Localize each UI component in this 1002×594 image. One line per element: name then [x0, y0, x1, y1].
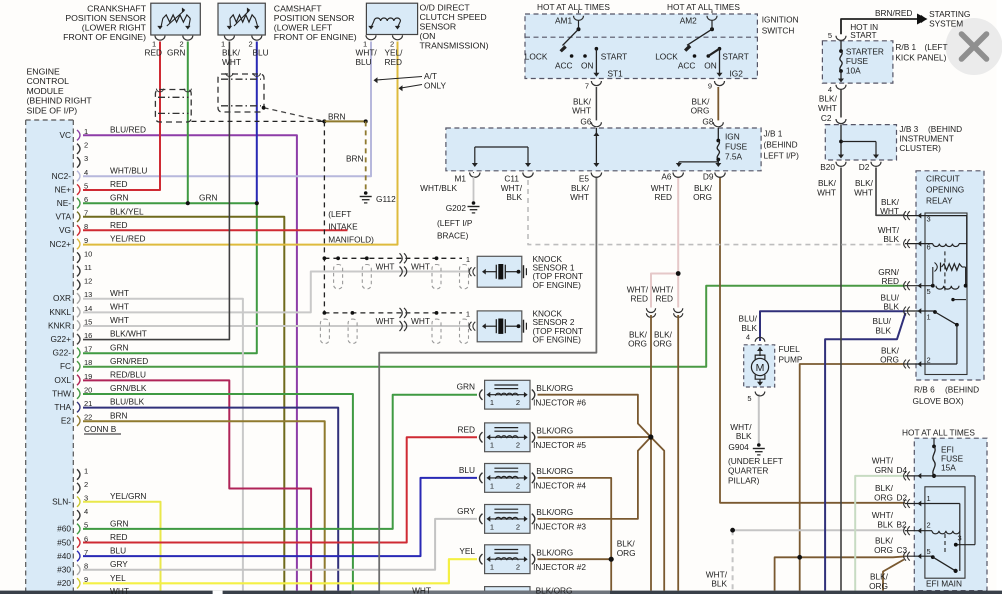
svg-text:GRN: GRN [199, 192, 217, 202]
svg-text:(LEFT: (LEFT [925, 42, 948, 52]
svg-text:SLN-: SLN- [52, 497, 71, 507]
svg-text:5: 5 [747, 394, 751, 403]
svg-text:OF ENGINE): OF ENGINE) [533, 280, 582, 290]
svg-text:G22-: G22- [53, 348, 72, 358]
svg-text:5: 5 [828, 31, 832, 40]
svg-text:G904: G904 [728, 442, 749, 452]
svg-text:ORG: ORG [693, 192, 712, 202]
svg-text:6: 6 [84, 534, 88, 543]
svg-text:1: 1 [466, 255, 470, 264]
svg-text:7: 7 [84, 209, 88, 218]
svg-text:D9: D9 [703, 172, 714, 182]
svg-text:WHT: WHT [411, 316, 430, 326]
svg-text:BLK: BLK [736, 431, 752, 441]
svg-text:(BEHIND: (BEHIND [928, 124, 962, 134]
svg-text:GRN: GRN [167, 48, 185, 58]
svg-text:BRN: BRN [110, 410, 128, 420]
svg-text:19: 19 [84, 372, 92, 381]
svg-text:VTA: VTA [55, 212, 71, 222]
svg-text:ORG: ORG [628, 339, 647, 349]
svg-text:LOCK: LOCK [655, 51, 678, 61]
svg-text:YEL/RED: YEL/RED [110, 234, 146, 244]
svg-text:D2: D2 [897, 493, 908, 503]
svg-text:GRN/RED: GRN/RED [110, 356, 148, 366]
svg-text:CONTROL: CONTROL [27, 76, 70, 86]
svg-text:1: 1 [490, 441, 494, 450]
svg-text:BLU/RED: BLU/RED [110, 125, 146, 135]
svg-text:HOT AT ALL TIMES: HOT AT ALL TIMES [667, 2, 740, 12]
svg-text:IGN: IGN [725, 132, 740, 142]
svg-text:FRONT OF ENGINE): FRONT OF ENGINE) [274, 32, 357, 42]
svg-text:2: 2 [84, 141, 88, 150]
svg-text:POSITION SENSOR: POSITION SENSOR [65, 13, 146, 23]
svg-text:C3: C3 [897, 545, 908, 555]
svg-text:FC: FC [60, 361, 71, 371]
svg-text:BLU/: BLU/ [739, 314, 758, 324]
svg-text:C2: C2 [821, 113, 832, 123]
svg-text:STARTING: STARTING [929, 9, 970, 19]
svg-text:5: 5 [927, 287, 931, 296]
svg-text:RED: RED [110, 220, 128, 230]
svg-text:(BEHIND: (BEHIND [945, 385, 979, 395]
svg-text:ACC: ACC [678, 61, 696, 71]
svg-text:WHT/BLU: WHT/BLU [110, 166, 147, 176]
svg-text:J/B 3: J/B 3 [899, 124, 918, 134]
svg-text:ON: ON [704, 61, 716, 71]
svg-text:7: 7 [84, 548, 88, 557]
svg-text:NC2+: NC2+ [50, 239, 72, 249]
svg-text:9: 9 [84, 575, 88, 584]
svg-text:RED: RED [654, 192, 672, 202]
svg-text:C11: C11 [504, 174, 519, 184]
svg-text:INJECTOR #2: INJECTOR #2 [533, 562, 586, 572]
svg-text:ACC: ACC [555, 61, 573, 71]
svg-text:(LEFT I/P: (LEFT I/P [437, 218, 473, 228]
svg-text:QUARTER: QUARTER [728, 466, 768, 476]
svg-text:ORG: ORG [874, 493, 893, 503]
svg-text:4: 4 [84, 507, 88, 516]
svg-text:WHT: WHT [110, 288, 129, 298]
svg-text:THW: THW [52, 388, 71, 398]
svg-text:YEL: YEL [459, 546, 475, 556]
svg-text:BLK/: BLK/ [875, 536, 894, 546]
svg-text:GRN: GRN [875, 465, 893, 475]
svg-text:#20: #20 [57, 578, 71, 588]
svg-text:(LOWER LEFT: (LOWER LEFT [274, 23, 333, 33]
svg-text:START: START [601, 51, 627, 61]
svg-text:RED: RED [630, 294, 648, 304]
svg-text:CLUSTER): CLUSTER) [899, 143, 941, 153]
svg-text:#50: #50 [57, 537, 71, 547]
svg-text:(UNDER LEFT: (UNDER LEFT [728, 456, 783, 466]
svg-text:1: 1 [490, 398, 494, 407]
svg-text:5: 5 [84, 521, 88, 530]
svg-text:WHT: WHT [818, 103, 837, 113]
svg-text:1: 1 [466, 310, 470, 319]
svg-text:18: 18 [84, 358, 92, 367]
svg-text:WHT: WHT [411, 261, 430, 271]
svg-text:IGNITION: IGNITION [762, 15, 799, 25]
svg-text:D4: D4 [897, 465, 908, 475]
svg-text:LOCK: LOCK [525, 51, 548, 61]
svg-text:GLOVE BOX): GLOVE BOX) [913, 396, 964, 406]
svg-text:A6: A6 [661, 172, 672, 182]
svg-text:SWITCH: SWITCH [762, 26, 795, 36]
svg-text:LEFT I/P): LEFT I/P) [764, 151, 800, 161]
svg-text:1: 1 [490, 522, 494, 531]
svg-text:A/T: A/T [424, 71, 437, 81]
svg-text:WHT/: WHT/ [872, 510, 894, 520]
svg-text:R/B 1: R/B 1 [895, 42, 916, 52]
svg-text:22: 22 [84, 413, 92, 422]
svg-text:YEL: YEL [110, 573, 126, 583]
svg-text:J/B 1: J/B 1 [764, 129, 783, 139]
svg-text:13: 13 [84, 290, 92, 299]
svg-text:15A: 15A [941, 463, 956, 473]
svg-text:ST1: ST1 [608, 69, 624, 79]
svg-text:#60: #60 [57, 524, 71, 534]
svg-text:B20: B20 [820, 162, 835, 172]
svg-text:RED: RED [385, 57, 403, 67]
svg-text:G6: G6 [580, 116, 591, 126]
svg-text:1: 1 [84, 127, 88, 136]
svg-text:WHT/: WHT/ [872, 455, 894, 465]
svg-text:ENGINE: ENGINE [27, 67, 61, 77]
svg-text:INSTRUMENT: INSTRUMENT [899, 134, 953, 144]
svg-text:G202: G202 [446, 203, 467, 213]
svg-text:VG: VG [59, 225, 71, 235]
svg-text:BLK: BLK [875, 326, 891, 336]
svg-text:BLK/ORG: BLK/ORG [536, 586, 573, 594]
svg-text:20: 20 [84, 385, 92, 394]
svg-text:BLU/: BLU/ [873, 316, 892, 326]
svg-text:WHT: WHT [570, 192, 589, 202]
svg-text:BLK/: BLK/ [875, 483, 894, 493]
svg-text:6: 6 [927, 243, 931, 252]
svg-text:BRN/RED: BRN/RED [875, 8, 912, 18]
svg-text:MANIFOLD): MANIFOLD) [328, 234, 374, 244]
svg-text:NC2-: NC2- [52, 171, 72, 181]
svg-text:BLK/WHT: BLK/WHT [110, 329, 147, 339]
svg-text:KICK PANEL): KICK PANEL) [895, 53, 946, 63]
svg-text:GRY: GRY [110, 559, 128, 569]
svg-text:2: 2 [516, 522, 520, 531]
svg-text:INJECTOR #3: INJECTOR #3 [533, 522, 586, 532]
svg-text:4: 4 [84, 168, 88, 177]
svg-text:7: 7 [585, 82, 589, 91]
svg-text:CLUTCH SPEED: CLUTCH SPEED [420, 12, 487, 22]
svg-text:EFI MAIN: EFI MAIN [926, 579, 962, 589]
svg-text:3: 3 [84, 494, 88, 503]
svg-text:FUSE: FUSE [725, 142, 748, 152]
svg-text:OXR: OXR [53, 293, 71, 303]
svg-text:NE-: NE- [57, 198, 72, 208]
svg-text:(LOWER RIGHT: (LOWER RIGHT [82, 23, 147, 33]
svg-text:BRACE): BRACE) [437, 231, 469, 241]
svg-text:GRN/BLK: GRN/BLK [110, 383, 147, 393]
svg-text:BLK/ORG: BLK/ORG [536, 426, 573, 436]
svg-text:SYSTEM: SYSTEM [929, 19, 963, 29]
svg-text:SENSOR: SENSOR [420, 22, 457, 32]
svg-text:BLK/ORG: BLK/ORG [536, 466, 573, 476]
svg-text:1: 1 [84, 466, 88, 475]
svg-text:INJECTOR #4: INJECTOR #4 [533, 481, 586, 491]
svg-text:1: 1 [927, 313, 931, 322]
svg-text:INTAKE: INTAKE [328, 222, 358, 232]
svg-text:9: 9 [84, 236, 88, 245]
svg-text:START: START [722, 51, 748, 61]
svg-text:BLK/: BLK/ [855, 178, 874, 188]
svg-text:14: 14 [84, 304, 92, 313]
svg-text:(BEHIND: (BEHIND [764, 140, 798, 150]
svg-text:BLK: BLK [883, 234, 899, 244]
svg-text:CAMSHAFT: CAMSHAFT [274, 4, 322, 14]
svg-text:BLK/ORG: BLK/ORG [536, 383, 573, 393]
svg-text:(ON: (ON [420, 31, 436, 41]
svg-text:BLU: BLU [459, 465, 475, 475]
svg-text:KNKL: KNKL [49, 307, 71, 317]
svg-text:G8: G8 [702, 116, 713, 126]
svg-text:#40: #40 [57, 551, 71, 561]
svg-text:WHT: WHT [110, 586, 129, 594]
svg-text:KNKR: KNKR [48, 320, 71, 330]
svg-text:2: 2 [516, 563, 520, 572]
svg-text:BLU: BLU [110, 546, 126, 556]
svg-text:#30: #30 [57, 565, 71, 575]
svg-text:16: 16 [84, 331, 92, 340]
svg-text:RELAY: RELAY [926, 196, 953, 206]
svg-text:GRN: GRN [110, 342, 128, 352]
svg-text:10: 10 [84, 249, 92, 258]
svg-text:INJECTOR #5: INJECTOR #5 [533, 440, 586, 450]
svg-text:12: 12 [84, 277, 92, 286]
svg-text:YEL/GRN: YEL/GRN [110, 491, 146, 501]
svg-text:3: 3 [927, 215, 931, 224]
svg-text:8: 8 [84, 562, 88, 571]
svg-text:WHT: WHT [376, 261, 395, 271]
svg-text:WHT/BLK: WHT/BLK [420, 183, 457, 193]
svg-text:ORG: ORG [869, 581, 888, 591]
svg-text:ORG: ORG [617, 548, 636, 558]
svg-text:21: 21 [84, 399, 92, 408]
svg-text:17: 17 [84, 345, 92, 354]
svg-text:E5: E5 [579, 174, 590, 184]
svg-text:4: 4 [746, 333, 750, 342]
svg-text:CIRCUIT: CIRCUIT [926, 174, 960, 184]
svg-text:WHT: WHT [880, 206, 899, 216]
svg-text:R/B 6: R/B 6 [914, 385, 935, 395]
svg-text:3: 3 [84, 154, 88, 163]
svg-text:RED: RED [655, 294, 673, 304]
svg-text:10A: 10A [846, 66, 861, 76]
svg-text:OXL: OXL [54, 375, 71, 385]
svg-text:AM2: AM2 [680, 15, 697, 25]
svg-text:RED: RED [110, 179, 128, 189]
svg-text:BLK/YEL: BLK/YEL [110, 206, 144, 216]
svg-text:BLK/ORG: BLK/ORG [536, 548, 573, 558]
svg-text:POSITION SENSOR: POSITION SENSOR [274, 13, 355, 23]
svg-text:PUMP: PUMP [779, 355, 803, 365]
svg-text:VC: VC [59, 130, 71, 140]
svg-text:M: M [756, 362, 765, 374]
svg-text:BLU/BLK: BLU/BLK [110, 397, 145, 407]
svg-text:STARTER: STARTER [846, 47, 884, 57]
svg-text:2: 2 [516, 481, 520, 490]
svg-text:ONLY: ONLY [424, 81, 446, 91]
svg-text:2: 2 [927, 521, 931, 530]
svg-text:CONN B: CONN B [84, 424, 117, 434]
svg-text:G112: G112 [376, 194, 396, 204]
svg-text:BLU: BLU [356, 57, 372, 67]
svg-text:2: 2 [927, 356, 931, 365]
svg-text:BLK/: BLK/ [818, 178, 837, 188]
svg-text:WHT: WHT [222, 57, 241, 67]
svg-text:6: 6 [84, 195, 88, 204]
svg-text:BLK: BLK [711, 579, 727, 589]
svg-text:OPENING: OPENING [926, 185, 964, 195]
svg-text:TRANSMISSION): TRANSMISSION) [420, 41, 489, 51]
svg-text:1: 1 [490, 563, 494, 572]
svg-text:8: 8 [84, 222, 88, 231]
svg-text:IG2: IG2 [730, 69, 744, 79]
svg-text:BRN: BRN [346, 154, 364, 164]
svg-text:WHT: WHT [110, 315, 129, 325]
svg-text:2: 2 [84, 480, 88, 489]
svg-text:BLK/: BLK/ [819, 94, 838, 104]
svg-text:START: START [850, 30, 876, 40]
svg-text:5: 5 [927, 547, 931, 556]
svg-text:1: 1 [490, 481, 494, 490]
svg-text:15: 15 [84, 317, 92, 326]
svg-text:1: 1 [927, 494, 931, 503]
svg-text:WHT: WHT [817, 188, 836, 198]
svg-text:BLK: BLK [741, 323, 757, 333]
svg-text:THA: THA [54, 402, 71, 412]
svg-text:9: 9 [708, 82, 712, 91]
svg-text:BRN: BRN [328, 112, 346, 122]
svg-text:FUSE: FUSE [846, 56, 869, 66]
svg-text:B2: B2 [897, 520, 908, 530]
svg-text:BLK/ORG: BLK/ORG [536, 507, 573, 517]
svg-text:CRANKSHAFT: CRANKSHAFT [87, 4, 147, 14]
svg-text:GRN: GRN [110, 193, 128, 203]
svg-text:SIDE OF I/P): SIDE OF I/P) [27, 105, 78, 115]
svg-text:OF ENGINE): OF ENGINE) [533, 334, 582, 344]
svg-text:INJECTOR #6: INJECTOR #6 [533, 398, 586, 408]
svg-text:M1: M1 [454, 174, 466, 184]
svg-text:2: 2 [516, 441, 520, 450]
svg-text:(BEHIND RIGHT: (BEHIND RIGHT [27, 96, 93, 106]
svg-text:GRY: GRY [457, 506, 475, 516]
svg-text:RED: RED [881, 276, 899, 286]
svg-text:RED: RED [457, 424, 475, 434]
svg-text:ORG: ORG [874, 545, 893, 555]
svg-text:FRONT OF ENGINE): FRONT OF ENGINE) [63, 32, 146, 42]
svg-text:AM1: AM1 [555, 15, 572, 25]
svg-text:GRN: GRN [457, 382, 475, 392]
svg-text:PILLAR): PILLAR) [728, 475, 760, 485]
svg-text:G22+: G22+ [50, 334, 71, 344]
svg-text:WHT: WHT [110, 302, 129, 312]
svg-text:MODULE: MODULE [27, 86, 64, 96]
svg-text:WHT: WHT [572, 106, 591, 116]
svg-text:ON: ON [581, 61, 593, 71]
svg-text:5: 5 [84, 181, 88, 190]
svg-text:BLK/: BLK/ [870, 572, 889, 582]
svg-text:WHT: WHT [854, 188, 873, 198]
svg-text:RED: RED [145, 48, 163, 58]
svg-text:HOT AT ALL TIMES: HOT AT ALL TIMES [537, 2, 610, 12]
svg-text:RED: RED [110, 532, 128, 542]
svg-text:FUEL: FUEL [779, 344, 801, 354]
svg-text:GRN: GRN [110, 518, 128, 528]
svg-text:NE+: NE+ [55, 184, 72, 194]
svg-text:ORG: ORG [691, 106, 710, 116]
svg-text:BLK: BLK [506, 192, 522, 202]
svg-text:3: 3 [958, 534, 962, 543]
svg-text:O/D DIRECT: O/D DIRECT [420, 3, 471, 13]
svg-text:ORG: ORG [880, 355, 899, 365]
svg-text:BLK: BLK [877, 520, 893, 530]
svg-text:2: 2 [516, 398, 520, 407]
svg-text:WHT: WHT [412, 586, 431, 594]
svg-text:11: 11 [84, 263, 92, 272]
svg-text:7.5A: 7.5A [725, 152, 743, 162]
svg-text:(LEFT: (LEFT [328, 209, 351, 219]
svg-text:BLU: BLU [253, 48, 269, 58]
svg-text:RED/BLU: RED/BLU [110, 370, 146, 380]
svg-text:HOT AT ALL TIMES: HOT AT ALL TIMES [902, 428, 975, 438]
svg-text:ORG: ORG [653, 339, 672, 349]
svg-text:D2: D2 [859, 162, 870, 172]
svg-text:BLK: BLK [883, 302, 899, 312]
svg-text:WHT: WHT [376, 316, 395, 326]
svg-text:E2: E2 [61, 416, 72, 426]
